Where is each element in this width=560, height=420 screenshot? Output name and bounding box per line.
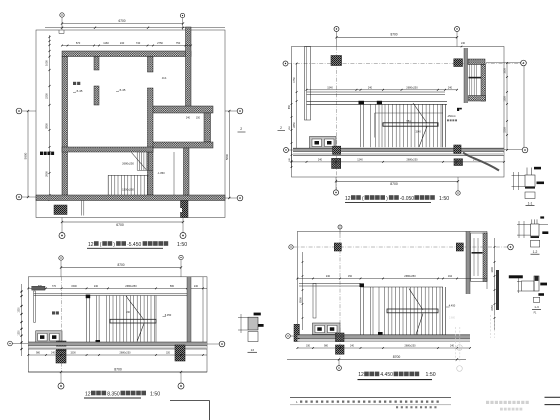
svg-text:-1.860: -1.860 <box>157 171 165 175</box>
upper flight shaft (bottom-right plan) <box>471 233 487 281</box>
axis circle left upper (top-right plan) <box>283 61 288 66</box>
edge wall gray bar (bottom-right plan) <box>466 231 470 294</box>
svg-text:2680x250: 2680x250 <box>406 85 418 89</box>
axis circle left (bottom-left plan) <box>8 341 29 346</box>
svg-text:240: 240 <box>318 158 323 161</box>
svg-text:12: 12 <box>85 391 91 397</box>
floor slab edge band (top-right plan) <box>293 148 504 155</box>
wall: bottom exterior (top-left plan) <box>36 195 225 201</box>
column K1 (bottom-right plan) <box>334 243 341 251</box>
section detail 1-1 <box>512 167 545 206</box>
stair mid landing bar (top-right plan) <box>375 113 443 138</box>
section detail 1-3 <box>509 275 547 314</box>
bottom dimension line 8700 (top-right plan) <box>335 180 459 186</box>
top dimension lines with value 6700 (top-left plan) <box>45 19 225 29</box>
stair treads (top-right plan) <box>385 104 441 147</box>
svg-text:-5.450: -5.450 <box>127 242 141 248</box>
vertical centerline (bottom-left plan) <box>61 277 63 372</box>
svg-text:240: 240 <box>450 345 455 348</box>
axis circle grid-B top (top-right plan) <box>455 27 460 47</box>
svg-text:8700: 8700 <box>114 367 122 371</box>
section flag mark (top-right plan) <box>457 108 462 111</box>
room labels and elevation marks (top-left plan) <box>40 76 167 155</box>
svg-text:13: 13 <box>251 348 255 352</box>
slab top edge double line (bottom-left plan) <box>34 294 187 296</box>
svg-text:1500: 1500 <box>70 352 76 355</box>
stair lower flight (top-left plan) <box>108 175 148 195</box>
svg-text:240: 240 <box>448 86 453 89</box>
boundary extent rectangle (top-left plan) <box>36 30 225 218</box>
svg-text:570: 570 <box>76 41 81 45</box>
caption: 4.450 stair structural plan 1:50 (bottom-right) <box>358 372 436 380</box>
stair break line (bottom-left plan) <box>126 296 144 342</box>
svg-text:8700: 8700 <box>390 33 397 37</box>
partial frame corner bottom-center <box>170 401 210 420</box>
floor slab edge band (bottom-left plan) <box>28 342 207 349</box>
svg-text:240: 240 <box>120 41 125 45</box>
top dimension row (bottom-left plan) <box>27 284 207 289</box>
general notes rule lower <box>290 404 560 406</box>
slab top edge double line (bottom-right plan) <box>299 283 361 286</box>
svg-text:8700: 8700 <box>393 355 401 359</box>
top dimension line 8700 (top-right plan) <box>335 33 465 48</box>
svg-text:1500: 1500 <box>19 307 21 313</box>
left bottom dark pier (bottom-right plan) <box>294 324 299 341</box>
svg-text:2850: 2850 <box>293 122 296 128</box>
svg-text:1540: 1540 <box>327 86 333 89</box>
axis circle bottom-right (top-right plan) <box>456 177 460 195</box>
svg-text:1750: 1750 <box>293 77 296 83</box>
faint watermark stamp circles <box>449 315 494 371</box>
svg-text:2680x250: 2680x250 <box>405 345 417 348</box>
right dimension chain (top-right plan) <box>504 62 525 151</box>
axis circle bottom (bottom-right plan) <box>337 359 342 370</box>
column K2 (bottom-right plan) <box>456 243 463 251</box>
svg-text:2680x250: 2680x250 <box>120 352 132 355</box>
axis circle right (bottom-left plan) <box>207 341 225 347</box>
svg-text:150: 150 <box>196 117 201 120</box>
bottom dimension line with value 6700 (top-left plan) <box>61 221 184 227</box>
elevation text (bottom-right plan) <box>446 304 456 308</box>
svg-text:2750: 2750 <box>157 41 163 45</box>
stair upper flight with break line (top-left plan) <box>132 152 154 171</box>
svg-text:8.350: 8.350 <box>107 391 120 397</box>
svg-text:1:50: 1:50 <box>177 242 187 248</box>
svg-text:240: 240 <box>51 352 56 355</box>
general notes rule upper <box>290 396 560 398</box>
svg-text:2950: 2950 <box>45 171 49 177</box>
left dimension chain (top-left plan) <box>24 35 51 201</box>
svg-text:1:50: 1:50 <box>426 372 436 378</box>
dimension row above stair (top-right plan) <box>306 85 458 90</box>
L-shaped wall (bottom-right plan) <box>313 283 316 318</box>
svg-text:12: 12 <box>358 372 364 378</box>
landing boxes pair (bottom-right plan) <box>313 323 341 335</box>
axis circle left (bottom-right plan) <box>289 245 293 249</box>
svg-text:1.: 1. <box>296 400 298 404</box>
column below band right (top-right plan) <box>454 159 463 166</box>
stair shaft edge line (top-left plan) <box>173 152 175 195</box>
svg-text:1:50: 1:50 <box>150 391 160 397</box>
svg-text:1800: 1800 <box>491 267 494 273</box>
svg-text:240: 240 <box>186 117 191 120</box>
axis circle 2 bottom (top-left plan) <box>180 218 186 239</box>
svg-text:1160: 1160 <box>103 41 109 45</box>
svg-text:J1b: J1b <box>162 76 167 80</box>
stair well edge lines (bottom-right plan) <box>360 283 383 335</box>
svg-text:5800: 5800 <box>225 153 229 160</box>
wall: left exterior (top-left plan) <box>62 57 68 200</box>
svg-text:770: 770 <box>52 285 57 288</box>
right shaft edge lines (bottom-left plan) <box>187 277 207 345</box>
svg-text:240: 240 <box>350 345 355 348</box>
boundary extent rectangle (bottom-left plan) <box>28 277 207 372</box>
svg-text:740: 740 <box>136 41 141 45</box>
svg-text:2680x250: 2680x250 <box>122 162 134 166</box>
column at band (bottom-right plan) <box>336 333 345 342</box>
vertical centerline grid-A (top-right plan) <box>336 47 338 191</box>
caption: -5.450 stair structural plan 1:50 (top-left) <box>87 241 187 248</box>
faint watermark text bottom-right <box>486 401 529 411</box>
window jamb lines below bottom wall (top-left plan) <box>81 201 84 216</box>
horizontal centerline (bottom-right plan) <box>293 246 508 248</box>
column at band right (top-right plan) <box>454 145 461 153</box>
floor slab edge band (bottom-right plan) <box>297 335 470 342</box>
wall: mid horizontal (top-left plan) <box>62 147 153 152</box>
axis circle 1 (top-left plan, grid 1 top) <box>60 13 64 30</box>
interior stair dimension texts (top-left plan) <box>122 117 201 192</box>
svg-text:980: 980 <box>324 345 329 348</box>
interior beam label (bottom-left plan) <box>52 311 59 314</box>
svg-text:1350: 1350 <box>504 96 507 102</box>
svg-text:1-1: 1-1 <box>528 201 533 205</box>
column below band grid-A (top-right plan) <box>332 158 341 168</box>
svg-text:2: 2 <box>240 127 242 131</box>
svg-text:6700: 6700 <box>118 19 125 23</box>
bottom dimension line 8700 (bottom-right plan) <box>287 355 466 361</box>
svg-text:2250: 2250 <box>504 127 507 133</box>
axis circle grid-A top (top-right plan) <box>334 27 339 47</box>
axis circle right upper (top-right plan) <box>486 60 526 66</box>
svg-text:2680x250: 2680x250 <box>407 158 419 161</box>
svg-text:194: 194 <box>448 275 453 278</box>
svg-text:240: 240 <box>461 42 466 45</box>
svg-text:-5.45: -5.45 <box>119 88 126 92</box>
svg-text:): ) <box>113 242 115 248</box>
right dimension chain and section mark 2 (top-left plan) <box>225 110 246 199</box>
stair treads (bottom-right plan) <box>385 287 441 335</box>
horizontal centerline (top-right plan) <box>288 63 523 65</box>
axis circle right (bottom-right plan) <box>508 244 514 250</box>
svg-text:-5.45: -5.45 <box>76 89 83 93</box>
axis circle 1 bottom (top-left plan) <box>59 218 65 239</box>
left dimension chain with rebar ticks (bottom-left plan) <box>19 284 23 356</box>
bottom dimension row (bottom-left plan) <box>27 352 207 356</box>
shaft extension walls right (top-left plan) <box>150 106 213 148</box>
svg-text:2: 2 <box>280 126 282 130</box>
stair right edge wall (bottom-right plan) <box>442 287 445 335</box>
right wall gray bar (bottom-left plan) <box>187 277 191 345</box>
L-shaped wall (bottom-left plan) <box>34 291 36 322</box>
boundary extent rectangle (bottom-right plan) <box>297 231 487 341</box>
stair treads (bottom-left plan) <box>110 296 155 342</box>
svg-text:12: 12 <box>345 196 351 202</box>
vertical centerline (bottom-right plan) <box>339 234 341 359</box>
svg-text:-0.050: -0.050 <box>400 196 414 202</box>
stair right edge wall (top-right plan) <box>442 104 445 147</box>
boundary notch (top-left plan) <box>59 30 64 34</box>
axis circle left lower (top-right plan) <box>278 126 294 153</box>
svg-text:320: 320 <box>166 352 171 355</box>
svg-text:(: ( <box>100 242 102 248</box>
axis circle bottom-left (bottom-left plan) <box>58 372 64 389</box>
svg-text:1800: 1800 <box>504 68 507 74</box>
interior shear wall (top-right plan) <box>305 47 311 121</box>
svg-text:1240: 1240 <box>357 158 363 161</box>
wall: lower-right vertical (top-left plan) <box>184 148 190 195</box>
column below band left (bottom-left plan) <box>56 351 66 364</box>
svg-text:1-3: 1-3 <box>534 305 539 309</box>
svg-text:): ) <box>386 196 388 202</box>
axis circle top-left (bottom-left plan) <box>59 256 63 277</box>
svg-text:5800: 5800 <box>24 152 28 159</box>
svg-text:2680x250: 2680x250 <box>404 274 416 278</box>
axis circle bottom-left (top-right plan) <box>333 177 338 195</box>
pier bottom-left (top-left plan) <box>54 205 67 215</box>
column on grid bottom-left (bottom-left plan) <box>57 341 67 351</box>
slope note text (top-right plan) <box>406 115 457 134</box>
svg-text:8700: 8700 <box>390 182 398 186</box>
general notes text row 2 <box>396 406 437 408</box>
top dimension line 8700 (bottom-left plan) <box>60 263 182 269</box>
left dimension chain (top-right plan) <box>288 63 298 168</box>
left dimension chain rotated label (bottom-right plan) <box>299 252 304 330</box>
axis circle C (top-left plan, right upper) <box>225 108 243 114</box>
axis circle right lower (top-right plan) <box>504 147 528 153</box>
landing boxes pair (bottom-left plan) <box>36 331 62 343</box>
svg-text:2850: 2850 <box>45 123 49 129</box>
svg-text:1-2: 1-2 <box>533 250 538 254</box>
column K2 top-right (top-right plan) <box>454 59 463 67</box>
svg-text:450: 450 <box>289 125 291 129</box>
svg-text:TB1: TB1 <box>406 120 411 123</box>
landing beam A double line (top-right plan) <box>307 92 446 95</box>
axis circle A (top-left plan, left upper) <box>16 108 36 114</box>
stair break line (top-right plan) <box>413 103 427 147</box>
stair right edge (bottom-left plan) <box>155 296 157 342</box>
axis circle D (top-left plan, right lower) <box>225 195 243 201</box>
upper flight shaft (top-right plan) <box>468 59 486 101</box>
svg-text:6700: 6700 <box>116 223 124 227</box>
column below band right (bottom-left plan) <box>175 345 185 361</box>
svg-text:750: 750 <box>176 41 181 45</box>
edge wall gray bar (top-right plan) <box>464 48 468 103</box>
svg-text:1200: 1200 <box>19 330 21 336</box>
column K1 on grid intersection (top-right plan) <box>331 56 342 66</box>
right dimension chain (bottom-right plan) <box>491 238 495 330</box>
svg-text:240: 240 <box>126 312 131 314</box>
stair mid landing bar (bottom-right plan) <box>387 309 438 313</box>
svg-text:150: 150 <box>348 275 353 278</box>
general notes text row 1 <box>296 400 439 404</box>
svg-text:240: 240 <box>326 275 331 278</box>
wall: right exterior upper (top-left plan) <box>186 27 192 107</box>
axis circle B (top-left plan, left lower) <box>16 194 36 200</box>
svg-text:4.450: 4.450 <box>449 304 456 308</box>
axis circle top-right (bottom-left plan) <box>179 255 183 276</box>
svg-text:1540: 1540 <box>415 131 421 134</box>
bottom dimension line 8700 (bottom-left plan) <box>28 367 207 373</box>
svg-text:2680x250: 2680x250 <box>125 284 137 288</box>
axis circle bottom-right (bottom-left plan) <box>178 372 184 389</box>
stair break line (bottom-right plan) <box>409 289 423 335</box>
scan curl artifact (top-right plan) <box>463 153 499 171</box>
elevation text (bottom-left plan) <box>126 312 172 317</box>
svg-text:240: 240 <box>194 285 199 288</box>
wall: top exterior (top-left plan) <box>62 51 191 57</box>
svg-text:12: 12 <box>88 242 94 248</box>
dimension row below band (top-right plan) <box>291 158 505 162</box>
axis circle left-bottom (bottom-right plan) <box>286 334 298 339</box>
stair top beam (bottom-right plan) <box>361 286 444 288</box>
svg-text:F1: F1 <box>534 311 537 314</box>
svg-text:1500: 1500 <box>71 285 77 288</box>
stair top beam with section marks (top-right plan) <box>307 101 448 105</box>
column at band grid-A (top-right plan) <box>333 146 341 154</box>
caption: -0.050 stair structural plan 1:50 (top-right) <box>345 195 449 202</box>
svg-text:240: 240 <box>94 285 99 288</box>
wall: interior partition B (top-left plan) <box>148 57 154 196</box>
svg-text:1050: 1050 <box>45 60 49 66</box>
svg-text:2.600: 2.600 <box>449 317 456 320</box>
top-left wall stub (bottom-left plan) <box>32 286 45 290</box>
bottom dimension row (bottom-right plan) <box>297 345 471 349</box>
svg-text:330: 330 <box>306 345 311 348</box>
svg-text:8700: 8700 <box>117 263 124 267</box>
section detail at bottom-center <box>238 313 264 353</box>
caption: 8.350 stair structural plan 1:50 (bottom-left) <box>84 391 160 398</box>
boundary extent rectangle (top-right plan) <box>292 47 505 178</box>
svg-text:240: 240 <box>368 86 373 89</box>
svg-text:2250: 2250 <box>491 305 494 311</box>
top interior dimension row (top-left plan) <box>61 41 192 46</box>
axis circle top (bottom-right plan) <box>338 225 342 234</box>
svg-text:2250: 2250 <box>45 93 49 99</box>
svg-text:980: 980 <box>36 352 41 355</box>
wall: interior partition A (top-left plan) <box>94 57 99 106</box>
column below band (bottom-right plan) <box>336 345 345 354</box>
stair well edge lines (bottom-left plan) <box>86 295 107 344</box>
dimension row above stair (bottom-right plan) <box>297 274 488 279</box>
pier bottom-right L-shape (top-left plan) <box>178 201 188 218</box>
svg-text:(: ( <box>362 196 364 202</box>
landing boxes pair (top-right plan) <box>310 137 337 149</box>
svg-text:240: 240 <box>289 157 291 161</box>
svg-text:-150mm: -150mm <box>447 115 456 118</box>
section detail 1-2 <box>517 216 548 254</box>
svg-text:4.450: 4.450 <box>380 372 393 378</box>
svg-text:1:50: 1:50 <box>439 196 449 202</box>
svg-text:1500x250: 1500x250 <box>122 188 134 192</box>
stair mid landing bar (bottom-left plan) <box>110 319 156 323</box>
axis circle 2 (top-left plan, grid 2 top) <box>180 13 184 30</box>
black bar mark (bottom-right plan) <box>496 270 499 310</box>
svg-text:850: 850 <box>288 104 291 109</box>
stair well edge lines (top-right plan) <box>361 104 383 147</box>
svg-text:8300: 8300 <box>299 297 303 303</box>
svg-text:580: 580 <box>170 285 175 288</box>
